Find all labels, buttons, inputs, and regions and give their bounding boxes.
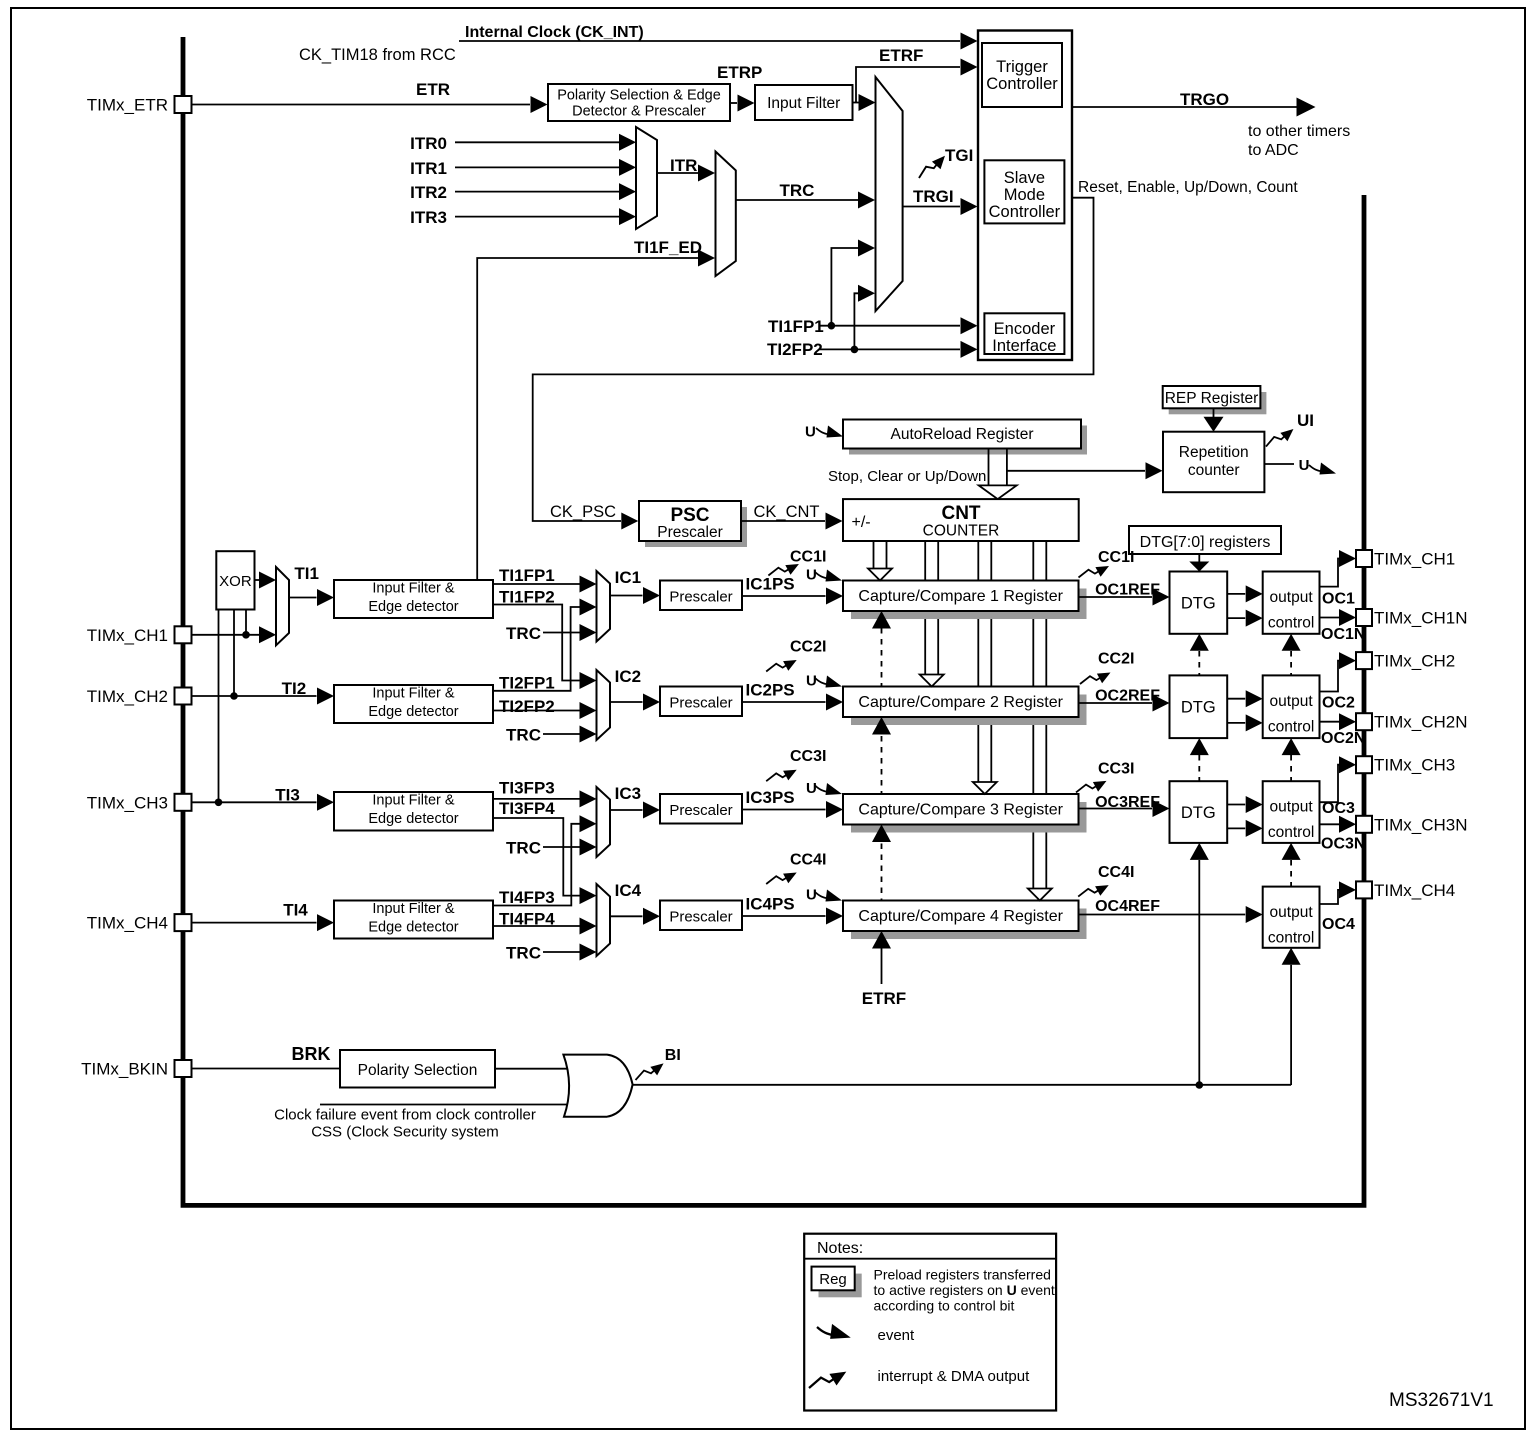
wire update event chain capture compare registers [881, 628, 883, 687]
pad TIMx_CH2 [1356, 652, 1372, 669]
wire update arrow under output control 4 [1282, 948, 1301, 965]
svg-text:event: event [878, 1327, 916, 1344]
block DTG 3 [1170, 781, 1228, 843]
svg-text:ITR3: ITR3 [410, 208, 447, 227]
svg-text:IC4PS: IC4PS [746, 895, 795, 914]
wire update arrow under DTG 3 [1190, 843, 1209, 860]
block REP Register [1169, 392, 1267, 414]
svg-text:Controller: Controller [989, 203, 1061, 221]
svg-text:TIMx_CH1N: TIMx_CH1N [1374, 609, 1468, 628]
wire IC4 to prescaler 4 [610, 915, 643, 917]
block Capture Compare 1 Register [851, 589, 1087, 620]
wire OC2N to pad [1320, 721, 1340, 723]
pad TIMx_CH2N [1356, 713, 1372, 730]
wire TI2FP2 to IC2 mux [493, 710, 580, 712]
svg-text:TIMx_CH4: TIMx_CH4 [1374, 881, 1455, 900]
svg-text:ITR1: ITR1 [410, 159, 447, 178]
svg-text:TIMx_CH4: TIMx_CH4 [87, 914, 168, 933]
wire TI1FP1 to IC1 mux [493, 583, 580, 585]
block Repetition counter [1163, 432, 1264, 493]
block DTG registers [1129, 526, 1281, 554]
wire input filter to trigger mux [853, 102, 860, 104]
svg-text:Interface: Interface [992, 337, 1056, 355]
svg-text:TGI: TGI [945, 146, 973, 165]
wire XOR input from TI1 [245, 610, 247, 635]
wire REP to repetition counter [1213, 408, 1215, 417]
svg-text:DTG: DTG [1181, 595, 1216, 613]
svg-text:U: U [806, 673, 817, 690]
pad TIMx_CH3N [1356, 816, 1372, 833]
wire update arrow under output control 1 [1282, 634, 1301, 651]
svg-text:TIMx_BKIN: TIMx_BKIN [81, 1060, 168, 1079]
svg-text:according to control bit: according to control bit [874, 1297, 1015, 1313]
svg-text:TI4: TI4 [283, 901, 308, 920]
svg-text:TI1FP1: TI1FP1 [768, 317, 824, 336]
wire OC2REF to DTG 2 [1079, 702, 1153, 704]
gate OR break [563, 1055, 632, 1117]
svg-text:CC3I: CC3I [1098, 761, 1134, 778]
svg-text:XOR: XOR [219, 573, 252, 590]
svg-text:IC3: IC3 [615, 784, 641, 803]
svg-text:CNT: CNT [941, 503, 980, 524]
wire OC4 to pad [1320, 890, 1343, 904]
svg-text:Repetition: Repetition [1179, 444, 1249, 461]
wire TI1F_ED [477, 258, 698, 580]
svg-text:ETRP: ETRP [717, 63, 762, 82]
wire slave mode controller to prescaler clock [533, 198, 1094, 521]
block Notes [804, 1234, 1056, 1411]
wire TI1 to input filter 1 [289, 597, 317, 599]
wire update arrow under output control 3 [1282, 843, 1301, 860]
block output control 1 [1263, 572, 1320, 634]
svg-text:TIMx_CH1: TIMx_CH1 [1374, 550, 1455, 569]
block Reg legend [819, 1274, 862, 1298]
block trigger controller outer [978, 31, 1072, 361]
block Prescaler 2 [660, 687, 742, 717]
mux IC4 selector [597, 884, 611, 956]
wire DTG 3 to output control 3 upper [1227, 804, 1245, 806]
mux IC2 selector [597, 670, 611, 740]
svg-text:IC2: IC2 [615, 667, 641, 686]
wire IC1 to prescaler 1 [610, 595, 643, 597]
svg-text:Capture/Compare 3 Register: Capture/Compare 3 Register [858, 802, 1063, 819]
svg-text:TIMx_CH2N: TIMx_CH2N [1374, 713, 1468, 732]
svg-text:IC2PS: IC2PS [746, 681, 795, 700]
svg-text:TI3FP3: TI3FP3 [499, 779, 555, 798]
svg-text:U: U [806, 780, 817, 797]
block Prescaler 1 [660, 581, 742, 611]
block Trigger Controller [982, 43, 1062, 107]
svg-text:Capture/Compare 1 Register: Capture/Compare 1 Register [858, 588, 1063, 605]
block DTG 2 [1170, 675, 1228, 738]
svg-text:UI: UI [1297, 411, 1314, 430]
svg-text:PSC: PSC [670, 505, 709, 526]
wire ITR to TRC mux [657, 172, 698, 174]
wire update arrow under DTG 1 [1190, 634, 1209, 651]
wire TI4FP4 to IC4 mux [493, 925, 580, 927]
svg-text:CK_PSC: CK_PSC [550, 503, 616, 521]
wire OC3 to pad [1320, 765, 1343, 803]
svg-text:Edge detector: Edge detector [368, 920, 458, 936]
svg-text:CC4I: CC4I [790, 852, 826, 869]
block Prescaler 3 [660, 794, 742, 824]
wire DTG registers to DTG1 [1198, 554, 1200, 562]
svg-text:Polarity Selection: Polarity Selection [358, 1062, 478, 1079]
svg-text:ETRF: ETRF [879, 46, 923, 65]
svg-text:TRC: TRC [506, 726, 541, 745]
svg-text:TRC: TRC [506, 624, 541, 643]
svg-text:BRK: BRK [292, 1044, 331, 1064]
wire clock failure event input [320, 1104, 572, 1106]
wire OC3REF to DTG 3 [1079, 808, 1153, 810]
wire IC4PS to capture compare 4 [742, 915, 826, 917]
svg-text:Preload registers transferred: Preload registers transferred [874, 1266, 1051, 1282]
svg-text:to other timers: to other timers [1248, 123, 1350, 140]
wire OC3N to pad [1320, 823, 1340, 825]
svg-text:U: U [1299, 457, 1310, 474]
svg-text:Input Filter &: Input Filter & [372, 581, 455, 597]
svg-text:BI: BI [665, 1047, 681, 1064]
legend event symbol [817, 1324, 851, 1339]
svg-text:control: control [1268, 718, 1315, 735]
block Polarity Selection & Edge Detector & Prescaler [548, 84, 730, 121]
svg-text:U: U [806, 887, 817, 904]
wire BI to update chains [633, 1084, 1292, 1086]
svg-text:TRC: TRC [780, 181, 815, 200]
wire TI2FP1 to IC1 mux [493, 607, 580, 691]
svg-text:OC3N: OC3N [1321, 836, 1365, 853]
wire IC1PS to capture compare 1 [742, 595, 826, 597]
svg-text:CSS (Clock Security system: CSS (Clock Security system [311, 1124, 499, 1141]
wire XOR input from TI3 [218, 610, 220, 803]
pad TIMx_CH3 [1356, 756, 1372, 773]
wire TI3FP4 to IC4 mux [493, 818, 580, 896]
svg-text:IC1: IC1 [615, 568, 641, 587]
mux trigger input selector [876, 77, 903, 311]
svg-text:Slave: Slave [1004, 169, 1045, 187]
svg-text:Reg: Reg [819, 1271, 847, 1288]
block DTG 1 [1170, 572, 1228, 634]
svg-text:TI2FP1: TI2FP1 [499, 674, 555, 693]
wire update arrow under output control 2 [1282, 738, 1301, 755]
svg-text:TIMx_ETR: TIMx_ETR [87, 96, 168, 115]
svg-text:control: control [1268, 615, 1315, 632]
block Capture Compare 3 Register [851, 802, 1087, 833]
svg-text:AutoReload Register: AutoReload Register [890, 426, 1033, 443]
wire update arrow under capture compare 2 [872, 717, 891, 735]
svg-text:Controller: Controller [986, 75, 1058, 93]
svg-text:CC3I: CC3I [790, 748, 826, 765]
svg-text:Input Filter &: Input Filter & [372, 793, 455, 809]
svg-text:control: control [1268, 824, 1315, 841]
wire TI1FP2 to IC2 mux [493, 605, 580, 681]
svg-text:OC1REF: OC1REF [1095, 582, 1160, 599]
main diagram thick border (left bus, bottom, right bus) [183, 37, 1364, 1205]
block Input Filter Edge detector 1 [334, 580, 493, 618]
wire IC2PS to capture compare 2 [742, 701, 826, 703]
mux IC3 selector [597, 787, 611, 857]
mux TI1 selector [276, 567, 289, 645]
mux ITR selector [636, 127, 657, 229]
pad TIMx_CH1N [1356, 609, 1372, 626]
wire XOR input from TI2 [233, 610, 235, 697]
pad TIMx_CH4 [1356, 881, 1372, 898]
svg-text:DTG: DTG [1181, 804, 1216, 822]
wire TRGI [903, 206, 960, 208]
wire ITR3 [455, 216, 619, 218]
svg-text:TIMx_CH1: TIMx_CH1 [87, 626, 168, 645]
block Input Filter Edge detector 4 [334, 901, 493, 939]
svg-text:TIMx_CH2: TIMx_CH2 [87, 687, 168, 706]
wire TIMx_CH1 to TI1 mux [192, 634, 260, 636]
svg-text:output: output [1270, 693, 1314, 710]
svg-text:TIMx_CH3: TIMx_CH3 [1374, 756, 1455, 775]
wire TRC to trigger mux [736, 199, 858, 201]
block output control 2 [1263, 675, 1320, 738]
svg-text:OC4: OC4 [1322, 916, 1355, 933]
wire TI2FP2 to encoder interface [820, 348, 960, 350]
svg-text:Capture/Compare 2 Register: Capture/Compare 2 Register [858, 694, 1063, 711]
wire OC2 to pad [1320, 661, 1343, 692]
wire update event chain DTG column [1198, 651, 1200, 675]
svg-text:CK_CNT: CK_CNT [754, 503, 820, 521]
svg-text:Trigger: Trigger [996, 58, 1048, 76]
wire TI1FP1 branch to trigger mux [831, 248, 858, 326]
svg-text:CC2I: CC2I [1098, 651, 1134, 668]
svg-text:OC4REF: OC4REF [1095, 898, 1160, 915]
svg-text:to active registers on U event: to active registers on U event [874, 1282, 1055, 1298]
svg-text:OC1: OC1 [1322, 591, 1355, 608]
svg-text:Clock failure event from clock: Clock failure event from clock controlle… [274, 1107, 536, 1124]
svg-text:U: U [805, 424, 816, 441]
svg-text:TI2FP2: TI2FP2 [767, 340, 823, 359]
svg-text:Prescaler: Prescaler [669, 589, 732, 606]
wire CK_INT internal clock [459, 40, 960, 42]
block XOR [216, 551, 254, 609]
svg-text:TRGI: TRGI [913, 187, 954, 206]
wire autoreload to CNT hollow arrow [988, 449, 990, 486]
svg-text:TRC: TRC [506, 839, 541, 858]
svg-text:CC4I: CC4I [1098, 864, 1134, 881]
wire TI4 [192, 922, 317, 924]
wire CK_CNT [741, 520, 825, 522]
wire update arrow under capture compare 1 [872, 611, 891, 629]
wire ETRF to trigger controller [856, 67, 960, 103]
wire DTG 1 to output control 1 upper [1227, 593, 1245, 595]
wire counter to capture compare hollow shafts [873, 541, 875, 569]
wire TI2 [192, 695, 317, 697]
svg-text:OC1N: OC1N [1321, 626, 1365, 643]
svg-text:COUNTER: COUNTER [923, 523, 1000, 540]
wire update arrow under capture compare 3 [872, 825, 891, 843]
wire ETRP [730, 102, 737, 104]
svg-text:Capture/Compare 4 Register: Capture/Compare 4 Register [858, 908, 1063, 925]
wire DTG 2 to output control 2 lower [1227, 722, 1245, 724]
svg-text:output: output [1270, 799, 1314, 816]
wire TI4FP3 to IC3 mux [493, 824, 580, 906]
svg-text:DTG[7:0] registers: DTG[7:0] registers [1140, 534, 1271, 551]
block PSC Prescaler [645, 507, 747, 547]
svg-text:Input Filter: Input Filter [767, 95, 840, 112]
svg-text:ETRF: ETRF [862, 989, 906, 1008]
svg-text:REP Register: REP Register [1165, 390, 1259, 407]
svg-text:OC2: OC2 [1322, 694, 1355, 711]
wire OC1REF to DTG 1 [1079, 596, 1153, 598]
svg-text:CC2I: CC2I [790, 639, 826, 656]
svg-text:MS32671V1: MS32671V1 [1389, 1390, 1494, 1411]
svg-text:Edge detector: Edge detector [368, 811, 458, 827]
svg-text:Notes:: Notes: [817, 1240, 863, 1257]
svg-text:ITR2: ITR2 [410, 183, 447, 202]
svg-text:counter: counter [1188, 462, 1240, 479]
svg-text:TI4FP3: TI4FP3 [499, 888, 555, 907]
wire IC3 to prescaler 3 [610, 809, 643, 811]
svg-text:Edge detector: Edge detector [368, 704, 458, 720]
block Input Filter Edge detector 2 [334, 685, 493, 723]
wire OC4REF to output control 4 [1079, 914, 1246, 916]
block output control 4 [1263, 887, 1320, 948]
svg-text:IC4: IC4 [615, 881, 642, 900]
svg-text:Input Filter &: Input Filter & [372, 686, 455, 702]
svg-text:output: output [1270, 589, 1314, 606]
svg-text:Polarity Selection & Edge: Polarity Selection & Edge [557, 88, 721, 104]
svg-text:ITR0: ITR0 [410, 134, 447, 153]
block Prescaler 4 [660, 901, 742, 931]
wire TI3FP3 to IC3 mux [493, 798, 580, 800]
svg-text:DTG: DTG [1181, 698, 1216, 716]
block Input Filter [755, 85, 853, 120]
wire DTG 2 to output control 2 upper [1227, 698, 1245, 700]
svg-text:Prescaler: Prescaler [669, 802, 732, 819]
mux IC1 selector [597, 571, 611, 642]
svg-text:to ADC: to ADC [1248, 142, 1299, 159]
wire TI3 [192, 801, 317, 803]
svg-text:TI1FP1: TI1FP1 [499, 566, 555, 585]
wire polarity selection to OR gate [495, 1068, 572, 1070]
block AutoReload Register [849, 426, 1087, 455]
wire update event chain output control column [1290, 651, 1292, 675]
svg-text:OC2N: OC2N [1321, 730, 1365, 747]
label BI interrupt [634, 1063, 666, 1080]
mux TRC selector [716, 152, 736, 277]
wire OC1 to pad [1320, 559, 1343, 587]
wire ITR1 [455, 166, 619, 168]
legend interrupt symbol [808, 1372, 847, 1388]
svg-text:Mode: Mode [1004, 186, 1045, 204]
wire DTG 3 to output control 3 lower [1227, 827, 1245, 829]
block Slave Mode Controller [984, 160, 1064, 223]
wire update to repetition counter [1007, 470, 1145, 472]
wire update arrow under capture compare 4 [872, 931, 891, 949]
wire TI1FP1 to encoder interface [820, 325, 960, 327]
wire IC3PS to capture compare 3 [742, 809, 826, 811]
svg-text:U: U [806, 567, 817, 584]
svg-text:CC1I: CC1I [790, 549, 826, 566]
label UI interrupt [1264, 429, 1296, 447]
wire ITR0 [455, 141, 619, 143]
wire XOR to TI1 mux [255, 579, 260, 581]
svg-text:Reset, Enable, Up/Down, Count: Reset, Enable, Up/Down, Count [1078, 179, 1298, 196]
svg-text:Edge detector: Edge detector [368, 599, 458, 615]
svg-text:TIMx_CH2: TIMx_CH2 [1374, 652, 1455, 671]
svg-text:CC1I: CC1I [1098, 549, 1134, 566]
pad TIMx_CH1 [1356, 550, 1372, 567]
svg-text:ETR: ETR [416, 80, 450, 99]
block CNT Counter [843, 499, 1079, 541]
svg-text:TRC: TRC [506, 944, 541, 963]
svg-text:Prescaler: Prescaler [669, 909, 732, 926]
svg-text:Detector & Prescaler: Detector & Prescaler [572, 104, 706, 120]
svg-text:TI2FP2: TI2FP2 [499, 697, 555, 716]
wire OC1N to pad [1320, 617, 1340, 619]
svg-text:+/-: +/- [852, 514, 871, 531]
svg-text:IC3PS: IC3PS [746, 788, 795, 807]
svg-text:TI3FP4: TI3FP4 [499, 799, 555, 818]
svg-text:Encoder: Encoder [994, 320, 1056, 338]
block output control 3 [1263, 781, 1320, 843]
svg-text:Prescaler: Prescaler [657, 524, 722, 541]
wire TI2FP2 branch to trigger mux [854, 293, 858, 349]
svg-text:OC2REF: OC2REF [1095, 688, 1160, 705]
block Encoder Interface [984, 313, 1064, 354]
block Polarity Selection break [340, 1050, 495, 1088]
svg-text:CK_TIM18 from RCC: CK_TIM18 from RCC [299, 46, 456, 64]
svg-text:Internal Clock (CK_INT): Internal Clock (CK_INT) [465, 24, 644, 41]
svg-text:control: control [1268, 930, 1315, 947]
label TGI interrupt [915, 156, 949, 178]
svg-text:TIMx_CH3N: TIMx_CH3N [1374, 815, 1468, 834]
wire ITR2 [455, 191, 619, 193]
svg-text:Stop, Clear or Up/Down: Stop, Clear or Up/Down [828, 468, 986, 485]
wire IC2 to prescaler 2 [610, 701, 643, 703]
block Input Filter Edge detector 3 [334, 792, 493, 831]
svg-text:Prescaler: Prescaler [669, 695, 732, 712]
wire hollow arrowheads into capture compare registers [868, 569, 892, 581]
svg-text:Input Filter &: Input Filter & [372, 901, 455, 917]
svg-text:IC1PS: IC1PS [746, 575, 795, 594]
svg-text:TI1F_ED: TI1F_ED [634, 238, 702, 257]
wire update arrow under DTG 2 [1190, 738, 1209, 755]
svg-text:interrupt & DMA output: interrupt & DMA output [878, 1368, 1031, 1385]
svg-text:output: output [1270, 904, 1314, 921]
block Capture Compare 4 Register [851, 909, 1087, 940]
block Capture Compare 2 Register [851, 695, 1087, 726]
svg-text:TI1: TI1 [294, 564, 319, 583]
svg-text:TIMx_CH3: TIMx_CH3 [87, 793, 168, 812]
label U event repetition counter [1264, 463, 1294, 465]
wire BRK [192, 1068, 341, 1070]
wire DTG 1 to output control 1 lower [1227, 617, 1245, 619]
